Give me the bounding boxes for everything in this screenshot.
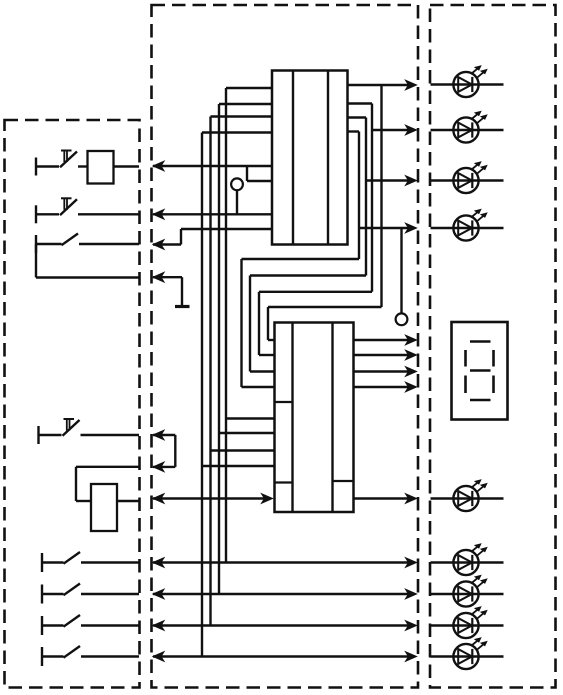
wire LED HL7 row bbox=[431, 593, 504, 595]
switch SA5 bbox=[42, 646, 139, 666]
wire input 3 (SA1 net) bbox=[153, 229, 272, 249]
wire SB2 output bbox=[78, 213, 139, 215]
wire LED HL8 row bbox=[431, 624, 504, 626]
LED HL5 bbox=[453, 480, 487, 511]
wire DD1 out1 / LED line 1 bbox=[268, 80, 417, 340]
dashed enclosure: input devices box bbox=[5, 120, 140, 688]
wire DD2 display out 2 bbox=[354, 350, 417, 360]
wire K2 output bbox=[117, 500, 139, 502]
switch SA1 bbox=[36, 234, 139, 254]
wire input 1 (SB1/K1 net) bbox=[153, 161, 272, 181]
switch SA3 bbox=[42, 584, 139, 604]
wire input 2 (SB2 net) bbox=[153, 210, 272, 220]
wire LED HL9 row bbox=[431, 655, 504, 657]
LED HL9 bbox=[453, 638, 487, 669]
LED HL7 bbox=[453, 575, 487, 606]
wire relay K2 coil feed bbox=[76, 467, 139, 501]
LED HL3 bbox=[453, 162, 487, 193]
wire LED HL5 row bbox=[431, 497, 504, 499]
LED HL2 bbox=[453, 111, 487, 142]
LED HL8 bbox=[453, 607, 487, 638]
wire DD2 port to LED 5 bbox=[354, 494, 417, 504]
wire DD2 port (bidirectional) bbox=[153, 494, 273, 504]
wire DD2 display out 1 bbox=[354, 335, 417, 345]
pushbutton switch SB2 bbox=[36, 198, 77, 223]
wire SB1 to K1 bbox=[78, 165, 88, 167]
pushbutton switch SB1 bbox=[36, 151, 77, 176]
wire data bus row 4 bbox=[153, 652, 417, 662]
wire data bus row 3 bbox=[153, 621, 417, 631]
LED HL6 bbox=[453, 544, 487, 575]
wire DD2 display out 4 bbox=[354, 382, 417, 392]
IC DD2 bbox=[275, 323, 354, 513]
LED HL4 bbox=[453, 209, 487, 240]
wire LED HL2 row bbox=[431, 129, 504, 131]
IC DD1 bbox=[272, 71, 348, 245]
wire LED HL6 row bbox=[431, 561, 504, 563]
wire SB3 output bbox=[81, 434, 140, 436]
node: test point TP1 bbox=[231, 178, 243, 214]
switch SA4 bbox=[42, 615, 139, 635]
7-segment display HG1 bbox=[452, 322, 508, 420]
wire DD1 out3 / LED line 3 bbox=[250, 118, 417, 372]
relay K2 bbox=[91, 484, 117, 531]
wire DD2 display out 3 bbox=[354, 367, 417, 377]
wire bus line b2 bbox=[211, 117, 275, 626]
wire DD1 out2 / LED line 2 bbox=[259, 104, 417, 356]
switch SA2 bbox=[42, 552, 139, 572]
dashed enclosure: logic unit box bbox=[152, 5, 419, 688]
wire data bus row 1 bbox=[153, 558, 417, 568]
wire bus line b3 bbox=[219, 104, 275, 594]
wire K1 output bbox=[114, 165, 140, 167]
pushbutton switch SB3 bbox=[39, 419, 80, 444]
wire LED HL3 row bbox=[431, 179, 504, 181]
wire bus line b4 bbox=[226, 88, 275, 563]
wire LED HL4 row bbox=[431, 227, 504, 229]
wire SA1 lower branch bbox=[36, 244, 139, 278]
wire LED HL1 row bbox=[431, 83, 504, 85]
node: test point TP2 bbox=[396, 228, 408, 325]
wire DD1 out4 / LED line 4 bbox=[242, 132, 417, 388]
wire SB3 loop bbox=[153, 430, 175, 472]
wire bus line b1 bbox=[202, 133, 275, 657]
wire data bus row 2 bbox=[153, 589, 417, 599]
ground bbox=[153, 272, 190, 306]
LED HL1 bbox=[453, 66, 487, 97]
dashed enclosure: indicator box bbox=[430, 5, 556, 688]
relay K1 bbox=[88, 151, 114, 184]
